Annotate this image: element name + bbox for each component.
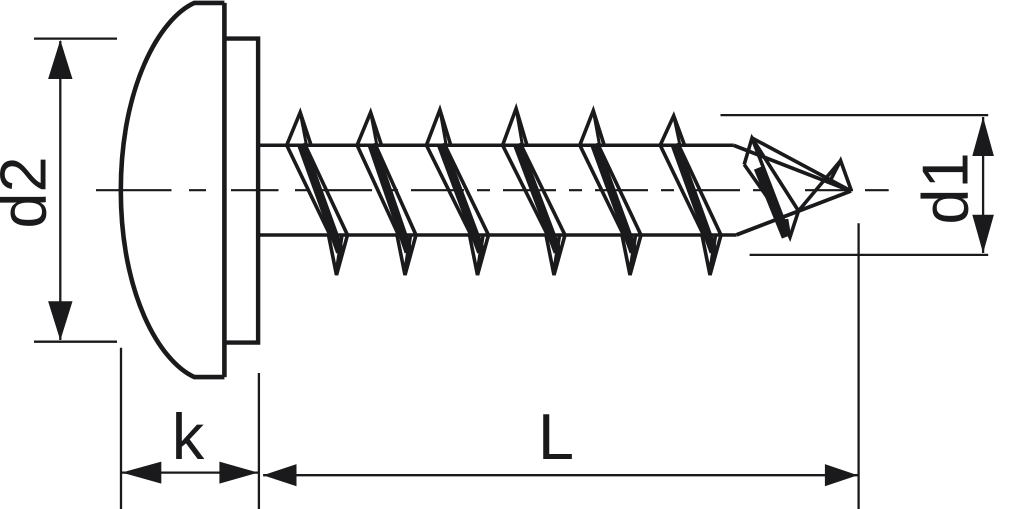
dimension L arrow left (263, 464, 296, 486)
tip crest line bottom-to-peak (799, 161, 841, 211)
thread flank line right 1 (305, 145, 347, 235)
thread tooth bottom inner line 5 (631, 235, 636, 268)
dimension k / L shared extension line (258, 373, 260, 509)
dimension d2 arrow up (48, 40, 72, 79)
thread tooth top 4 (503, 109, 527, 146)
thread flank band 2 (372, 144, 409, 252)
dimension d1 arrow up (972, 117, 994, 156)
thread flank line left 3 (426, 145, 471, 235)
thread flank band 5 (594, 144, 634, 252)
thread crest inner line 3 (440, 110, 447, 147)
centerline (dash-dot axis) (96, 189, 889, 191)
thread tooth bottom inner line 1 (337, 235, 342, 268)
tip thread tooth bottom 7 (782, 211, 799, 237)
dimension L arrow right (825, 464, 858, 486)
thread flank line right 3 (445, 145, 489, 235)
thread tooth bottom 6 (702, 235, 721, 275)
dimension d1 arrow down (972, 215, 994, 253)
shank bottom root line (258, 233, 737, 237)
label k (118, 404, 258, 469)
tip thread flank band 7 (758, 168, 786, 237)
shank top root line (258, 143, 734, 147)
thread tooth top 1 (287, 112, 312, 145)
tip cone top edge (734, 145, 851, 191)
thread flank band 1 (301, 144, 340, 252)
dimension k arrow left (122, 462, 162, 484)
thread tooth bottom inner line 2 (406, 235, 411, 268)
thread tooth bottom 1 (329, 235, 348, 275)
head flange band (224, 39, 258, 343)
dimension L extension line right (857, 223, 859, 509)
thread flank line left 1 (287, 145, 330, 235)
tip helix apex line 7 (752, 138, 790, 237)
tip thread tooth top 7 (744, 138, 798, 211)
thread flank line left 6 (660, 145, 703, 235)
thread tooth top 6 (660, 116, 685, 146)
dimension d2 extension line top (34, 37, 117, 39)
thread crest inner line 2 (371, 112, 378, 146)
dimension d1 extension line top (721, 114, 989, 116)
thread crest inner line 5 (593, 111, 600, 147)
dimension L line (263, 474, 858, 476)
dimension k line (122, 471, 258, 473)
thread flank line right 4 (521, 145, 565, 235)
label L (486, 404, 626, 469)
tip crest line to point (752, 138, 851, 191)
thread flank line left 4 (503, 145, 548, 235)
dimension d2 line (59, 41, 61, 340)
tip small peak 8 (830, 161, 852, 191)
thread tooth bottom 2 (397, 235, 416, 275)
dimension d2 extension line bottom (34, 341, 117, 343)
thread flank line left 2 (357, 145, 398, 235)
thread tooth top 5 (580, 111, 605, 146)
dimension d2 arrow down (48, 301, 72, 340)
thread flank band 3 (441, 144, 481, 252)
thread crest inner line 1 (300, 112, 307, 146)
thread flank band 4 (517, 144, 558, 252)
dimension d1 line (982, 117, 984, 253)
dimension k extension line left (120, 348, 122, 509)
thread tooth bottom inner line 3 (478, 235, 483, 268)
thread tooth bottom inner line 6 (711, 235, 716, 268)
head dome right edge (222, 3, 227, 377)
thread flank line right 2 (376, 145, 416, 235)
screw head dome outline (121, 3, 225, 377)
tip tooth bottom inner line 7 (787, 219, 790, 234)
label d1 (913, 119, 978, 259)
dimension d1 extension line bottom (750, 254, 989, 256)
thread tooth bottom 3 (470, 235, 489, 275)
thread tooth top 2 (357, 112, 382, 145)
thread tooth bottom 5 (622, 235, 641, 275)
thread tooth top 3 (426, 110, 451, 146)
label d2 (0, 123, 56, 263)
tip cone bottom edge (737, 191, 851, 235)
thread crest inner line 6 (674, 116, 681, 147)
thread tooth bottom 4 (546, 235, 565, 275)
thread flank line left 5 (580, 145, 624, 235)
tip flank line left 7 (744, 165, 781, 218)
thread flank line right 5 (598, 145, 641, 235)
thread tooth bottom inner line 4 (555, 235, 560, 268)
thread flank line right 6 (679, 145, 721, 235)
thread crest inner line 4 (516, 109, 523, 147)
thread flank band 6 (675, 144, 714, 252)
dimension k arrow right (219, 462, 258, 484)
